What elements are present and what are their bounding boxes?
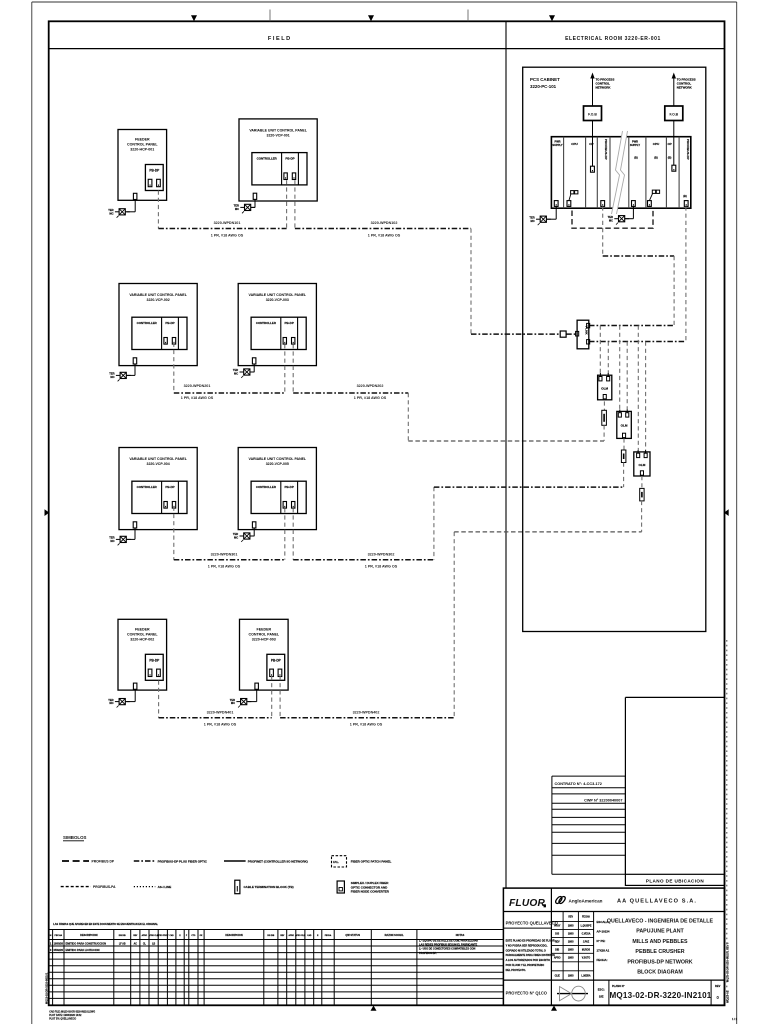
svg-text:3220-WPDN201: 3220-WPDN201 (184, 384, 211, 388)
terminator P7-TR (108, 698, 130, 708)
svg-text:AC: AC (134, 943, 138, 946)
CPU-B diagnostic ports (649, 190, 659, 201)
svg-text:1 PR, #18 AWG OS: 1 PR, #18 AWG OS (208, 565, 241, 569)
svg-text:C.VEGA: C.VEGA (582, 933, 591, 936)
svg-text:PLANO DE UBICACION: PLANO DE UBICACION (646, 878, 705, 883)
Y-link coupler U1 (576, 320, 590, 349)
match arrows bottom (371, 1006, 558, 1011)
svg-text:PROFIBUS-DP.: PROFIBUS-DP. (419, 952, 437, 955)
svg-text:PLANO N°: PLANO N° (612, 984, 625, 988)
legend item controller network (224, 860, 308, 864)
svg-text:3220-WPDN202: 3220-WPDN202 (357, 384, 384, 388)
svg-text:19/03: 19/03 (568, 934, 574, 936)
svg-text:TER: TER (230, 698, 235, 702)
bus W4 labels (204, 711, 383, 727)
svg-text:V.SOTO: V.SOTO (582, 958, 591, 960)
svg-text:CABLE TERMINATION BLOCK (TB): CABLE TERMINATION BLOCK (TB) (244, 885, 294, 889)
wire line A drop to R3 (637, 326, 639, 451)
svg-text:M.RIOS: M.RIOS (582, 949, 591, 951)
terminator P6-TR (233, 532, 255, 542)
svg-text:1 PR, #18 AWG OS: 1 PR, #18 AWG OS (365, 565, 398, 569)
match arrow left border (45, 509, 50, 516)
svg-text:CONTROLLER: CONTROLLER (137, 321, 158, 325)
bus W2 PROFIBUS segment row2 (174, 392, 408, 394)
svg-text:3220-WPDN302: 3220-WPDN302 (368, 552, 395, 556)
svg-text:COPIADO NI UTILIZADO TOTAL O: COPIADO NI UTILIZADO TOTAL O (506, 949, 546, 952)
svg-text:(B): (B) (654, 156, 658, 160)
svg-text:FLUOR: FLUOR (509, 898, 546, 909)
svg-text:19/03: 19/03 (568, 926, 574, 928)
svg-text:QUELLAVECO - INGENIERIA DE DET: QUELLAVECO - INGENIERIA DE DETALLE (607, 919, 714, 925)
svg-text:LB: LB (152, 944, 155, 946)
wire F2 to bus W3 (623, 463, 625, 488)
bus W2 riser down (407, 393, 409, 441)
legend item fiber patch panel (332, 856, 392, 867)
slot CPU B (653, 142, 660, 159)
panel P5 (119, 448, 197, 540)
svg-text:PB-DP: PB-DP (149, 658, 160, 662)
location plan label bar (625, 874, 724, 885)
disclaimer paragraph (506, 940, 556, 972)
inline connector J1 (560, 331, 566, 337)
terminator P4-TR (233, 368, 255, 378)
terminator TR-B (608, 215, 630, 225)
CPU-A diagnostic ports (569, 191, 578, 201)
svg-text:CONTROL PANEL: CONTROL PANEL (248, 633, 279, 637)
svg-text:PROYECTO N° Q1CO: PROYECTO N° Q1CO (506, 991, 548, 996)
svg-text:(B): (B) (668, 156, 672, 160)
panel P8 (240, 619, 289, 701)
svg-text:VARIABLE UNIT CONTROL PANEL: VARIABLE UNIT CONTROL PANEL (249, 128, 307, 132)
AngloAmerican logo (556, 897, 603, 904)
svg-text:3220-HCP-002: 3220-HCP-002 (130, 638, 154, 642)
panel P3 (119, 284, 197, 376)
svg-text:AS-I LINE: AS-I LINE (158, 885, 172, 889)
svg-text:CONTROLLER: CONTROLLER (137, 485, 158, 489)
svg-text:PROFIBUS DP: PROFIBUS DP (92, 860, 115, 864)
svg-text:APRO: APRO (288, 934, 294, 937)
svg-text:DIB: DIB (555, 949, 559, 951)
rack port CP-B mid (672, 165, 676, 171)
svg-text:1 PR, #18 AWG OS: 1 PR, #18 AWG OS (181, 396, 214, 400)
wire P3 drop to bus W2 (173, 343, 175, 393)
svg-text:CAD: CAD (307, 934, 312, 937)
svg-text:PB-DP: PB-DP (271, 658, 282, 662)
svg-text:3220-VCP-002: 3220-VCP-002 (147, 298, 170, 302)
svg-text:CONTROLLER: CONTROLLER (257, 156, 278, 160)
terminator TR-A (529, 215, 551, 225)
legend item profibus pa (61, 885, 116, 889)
bus W2 run to repeater R1 (408, 440, 604, 442)
FIELD / ELECTRICAL ROOM divider (505, 21, 507, 888)
svg-text:1 PR, #18 AWG OS: 1 PR, #18 AWG OS (211, 233, 244, 237)
profibus line A from DP-A (589, 206, 674, 325)
svg-text:OLM: OLM (601, 386, 608, 390)
plot info under table (49, 1010, 95, 1020)
svg-text:3220-VCP-005: 3220-VCP-005 (266, 462, 289, 466)
terminator P1-TR (108, 208, 130, 218)
attribute labels (597, 920, 610, 962)
PCS cabinet 3220-PC-101 (523, 67, 706, 631)
svg-text:LAS REDES PROFIBUS SEGUN EL FA: LAS REDES PROFIBUS SEGUN EL FABRICANTE (419, 944, 477, 947)
wire R1 to fuse F1 (603, 401, 605, 410)
svg-text:19/03: 19/03 (568, 958, 574, 960)
svg-text:CP: CP (667, 142, 671, 146)
svg-text:3220-VCP-004: 3220-VCP-004 (147, 462, 170, 466)
notes column text (419, 940, 478, 955)
svg-text:PROFIBUS-DP PLUS FIBER OPTIC: PROFIBUS-DP PLUS FIBER OPTIC (158, 860, 208, 864)
location plan box (625, 697, 724, 874)
wire PWR-A port to terminator TR-A (546, 206, 556, 219)
svg-text:Y NO PODRA SER REPRODUCIDO,: Y NO PODRA SER REPRODUCIDO, (506, 944, 548, 947)
fiber optic converter FO1 (584, 106, 602, 121)
wire P8 drops to bus W4 (272, 676, 280, 718)
panel P7 (118, 619, 167, 701)
bus W3 run to repeater R2 (434, 486, 624, 488)
svg-text:DIS: DIS (555, 934, 559, 936)
svg-text:TER: TER (108, 698, 113, 702)
svg-text:19/03: 19/03 (568, 976, 574, 978)
svg-text:PLOT BY: QUELLAVECO: PLOT BY: QUELLAVECO (49, 1017, 76, 1020)
svg-text:MC: MC (531, 219, 535, 223)
panel P1 (118, 130, 167, 212)
svg-text:MC: MC (110, 539, 114, 543)
FLUOR dot (544, 905, 546, 908)
svg-text:F.O.B: F.O.B (588, 113, 597, 117)
svg-text:F I E L D: F I E L D (268, 36, 290, 42)
legend item profibus dp fiber (134, 860, 208, 864)
svg-text:MC: MC (231, 701, 235, 705)
wire R2 to fuse F2 (623, 438, 625, 450)
svg-text:L.QUISPE: L.QUISPE (581, 926, 592, 928)
svg-text:3220-HCP-003: 3220-HCP-003 (252, 638, 276, 642)
header band line (49, 48, 725, 50)
svg-text:FIBER NODE CONVERTER: FIBER NODE CONVERTER (351, 890, 390, 894)
controller rack (551, 137, 690, 209)
svg-text:REV: REV (568, 917, 573, 919)
svg-text:AA QUELLAVECO S.A.: AA QUELLAVECO S.A. (617, 898, 697, 904)
repeater R2 (617, 410, 632, 439)
svg-text:F.O.B: F.O.B (669, 113, 678, 117)
bus W4 PROFIBUS segment row4 (159, 717, 455, 719)
svg-text:PWR: PWR (632, 139, 638, 143)
svg-text:FECHA: FECHA (582, 916, 590, 919)
svg-text:FEEDER: FEEDER (135, 138, 150, 142)
wire P7 drop to bus W4 (158, 681, 160, 718)
svg-text:APRO: APRO (142, 934, 148, 937)
svg-text:MQ13-02-DR-3220-IN2101 REV 0: MQ13-02-DR-3220-IN2101 REV 0 (726, 942, 730, 982)
svg-text:I.P.L.: I.P.L. (333, 860, 339, 864)
svg-text:SUPPLY: SUPPLY (552, 143, 562, 147)
title block frame (503, 888, 724, 1005)
svg-text:MC: MC (110, 375, 114, 379)
terminator P3-TR (109, 372, 131, 382)
wire FO2 down to CP-B port (673, 121, 675, 166)
bus W1 riser to electrical room (470, 229, 472, 335)
svg-text:3220-WPDN102: 3220-WPDN102 (371, 221, 398, 225)
svg-text:QW STATUS: QW STATUS (345, 934, 360, 937)
svg-text:NETWORK: NETWORK (677, 86, 693, 90)
wire P5 drop to bus W3 (173, 507, 175, 560)
wire PWR-B port to terminator TR-B (625, 206, 634, 218)
projection symbol (557, 986, 588, 1001)
wire line A drop to R2 (619, 326, 621, 410)
svg-text:3220-WPDN401: 3220-WPDN401 (207, 711, 234, 715)
svg-text:PB-DP: PB-DP (285, 321, 294, 325)
svg-text:SIMBOLOS: SIMBOLOS (63, 835, 86, 840)
repeater R3 (634, 450, 650, 476)
svg-text:3220-VCP-001: 3220-VCP-001 (267, 134, 290, 138)
svg-text:PAPUJUNE PLANT: PAPUJUNE PLANT (636, 929, 684, 935)
wire line B drop to R2 (626, 342, 628, 410)
legend item as-i line (134, 885, 171, 889)
svg-text:ESTE PLANO ES PROPIEDAD DE FLU: ESTE PLANO ES PROPIEDAD DE FLUOR (506, 940, 555, 943)
svg-text:CWP N° 32200040007: CWP N° 32200040007 (584, 799, 622, 803)
bus W3 riser up (433, 487, 435, 560)
svg-text:MQ13-02-DR-3220-IN2101: MQ13-02-DR-3220-IN2101 (609, 991, 711, 1000)
wire F1 to bus W2 (603, 425, 605, 441)
right margin perforation dots (726, 640, 728, 1003)
revision table (49, 930, 504, 1006)
rack port CPU-A (567, 201, 571, 207)
slot PWR SUPPLY B (630, 139, 640, 159)
svg-text:TER: TER (109, 536, 114, 540)
svg-text:A LOS AUTORIZADOS POR ESCRITO: A LOS AUTORIZADOS POR ESCRITO (506, 959, 550, 962)
panel P2 (239, 119, 317, 207)
cabinet label (530, 77, 560, 89)
signature table (551, 912, 593, 981)
svg-text:TER: TER (108, 208, 113, 212)
svg-text:VARIABLE UNIT CONTROL PANEL: VARIABLE UNIT CONTROL PANEL (129, 457, 187, 461)
svg-text:PROY: PROY (554, 926, 561, 928)
svg-text:1 PR, #18 AWG OS: 1 PR, #18 AWG OS (350, 723, 383, 727)
svg-text:MC: MC (109, 701, 113, 705)
label to process control network 1 (596, 78, 615, 90)
legend item fiber connector (337, 881, 390, 894)
surge barrier F1 (602, 410, 607, 425)
terminator P8-TR (230, 698, 252, 708)
svg-text:17X28 A1: 17X28 A1 (597, 949, 610, 953)
fold marks top (270, 10, 468, 22)
bus W1 run to Y-link (471, 333, 577, 335)
svg-text:19/03: 19/03 (568, 949, 574, 951)
right margin filing text (725, 942, 729, 1003)
svg-text:CONTROLLER: CONTROLLER (256, 321, 277, 325)
match arrows top (191, 15, 555, 21)
svg-text:DIS DIB: DIS DIB (267, 935, 275, 937)
svg-text:19/03: 19/03 (568, 942, 574, 944)
bus W3 labels (208, 552, 398, 568)
svg-text:CTO: CTO (191, 935, 195, 937)
svg-text:DIS DIB: DIS DIB (119, 935, 127, 937)
svg-text:APRO CLIE: APRO CLIE (295, 934, 306, 937)
svg-text:1 PR, #18 AWG OS: 1 PR, #18 AWG OS (368, 233, 401, 237)
scale cell (598, 980, 609, 1005)
svg-text:MC: MC (235, 207, 239, 211)
wire line A drop to R1 (599, 326, 601, 374)
legend title SIMBOLOS (63, 835, 86, 841)
svg-text:J.PAZ: J.PAZ (583, 941, 590, 944)
svg-text:OLM: OLM (621, 423, 628, 427)
bus W2 labels (181, 384, 387, 400)
label to process control network 2 (677, 78, 696, 90)
svg-text:LF AB: LF AB (119, 943, 126, 946)
svg-text:(B): (B) (683, 194, 687, 198)
svg-text:TER: TER (529, 215, 534, 219)
svg-text:VARIABLE UNIT CONTROL PANEL: VARIABLE UNIT CONTROL PANEL (249, 293, 307, 297)
profibus line B from DP-B (589, 206, 686, 341)
bus W3 PROFIBUS segment row3 (174, 559, 434, 561)
svg-text:CAD FILE: MQ13-02-DR-3220-IN21: CAD FILE: MQ13-02-DR-3220-IN2101.DWG (49, 1010, 95, 1013)
redundancy sync bus under rack (572, 211, 653, 229)
revision table headers (50, 934, 465, 937)
fiber optic converter FO2 (665, 106, 683, 121)
surge barrier F2 (621, 450, 626, 463)
svg-text:19/03/20: 19/03/20 (54, 943, 64, 946)
bus W4 riser up (453, 532, 455, 718)
svg-text:3220-VCP-003: 3220-VCP-003 (266, 298, 289, 302)
svg-text:FECHA:: FECHA: (597, 958, 608, 962)
svg-text:PEBBLE CRUSHER: PEBBLE CRUSHER (635, 949, 684, 955)
svg-text:CONTRATO N°: 4-CC3-172: CONTRATO N°: 4-CC3-172 (555, 782, 602, 786)
rack slot dividers (564, 137, 680, 209)
legend item profibus dp (62, 860, 115, 864)
bus W4 run to repeater R3 (454, 531, 641, 533)
svg-text:PROFIBUS-PA: PROFIBUS-PA (93, 885, 116, 889)
svg-text:ELECTRICAL ROOM 3220-ER-001: ELECTRICAL ROOM 3220-ER-001 (565, 36, 661, 42)
bus W1 labels (211, 221, 401, 237)
svg-text:PCS CABINET: PCS CABINET (530, 77, 560, 82)
svg-text:PROYECTO QUELLAVECO: PROYECTO QUELLAVECO (506, 920, 559, 925)
repeater R1 (598, 373, 612, 400)
svg-text:MC: MC (234, 536, 238, 540)
svg-text:PB-DP: PB-DP (285, 485, 294, 489)
svg-text:(B): (B) (634, 156, 638, 160)
svg-text:CAD: CAD (170, 934, 175, 937)
slot CP B (667, 142, 671, 159)
svg-text:DESCRIPCION: DESCRIPCION (225, 934, 243, 937)
svg-text:TER: TER (234, 204, 239, 208)
svg-text:PB-DP: PB-DP (165, 485, 174, 489)
wire P2 drops to bus W1 (287, 180, 295, 228)
svg-text:EMITIDO PARA CONSTRUCCION: EMITIDO PARA CONSTRUCCION (66, 942, 107, 946)
svg-text:PROFINET (CONTROLLER I/O NETWO: PROFINET (CONTROLLER I/O NETWORK) (248, 860, 308, 864)
svg-text:AP-10134: AP-10134 (597, 930, 610, 934)
svg-text:PWR: PWR (554, 139, 560, 143)
rack port DP-B (684, 201, 688, 207)
svg-text:CONTROL PANEL: CONTROL PANEL (127, 143, 158, 147)
svg-text:CPU: CPU (653, 142, 660, 146)
svg-text:CP: CP (589, 142, 593, 146)
svg-text:MQ13-02-DR-3220-IN2101: MQ13-02-DR-3220-IN2101 (45, 972, 49, 1004)
svg-text:1 PR, #18 AWG OS: 1 PR, #18 AWG OS (204, 723, 237, 727)
bus W1 PROFIBUS segment row1 (158, 228, 471, 230)
svg-text:BLOCK DIAGRAM: BLOCK DIAGRAM (637, 970, 683, 976)
svg-text:PARCIALMENTE PARA FINES DISTIN: PARCIALMENTE PARA FINES DISTINTOS (506, 954, 556, 957)
wire line B drop to R3 (645, 342, 647, 451)
svg-text:LAS FIRMAS QUE APARECEN EN EST: LAS FIRMAS QUE APARECEN EN ESTE DOCUMENT… (53, 923, 158, 926)
legend item bus connector (235, 880, 294, 894)
svg-text:MC: MC (234, 372, 238, 376)
surge barrier F3 (640, 488, 644, 501)
contract table (552, 776, 626, 874)
revision cell (711, 980, 721, 1005)
svg-text:MC: MC (609, 218, 613, 222)
svg-text:CLIE: CLIE (555, 976, 561, 978)
terminator P2-TR (234, 204, 256, 214)
wire R3 to fuse F3 (641, 476, 643, 488)
svg-text:TER: TER (608, 215, 613, 219)
panel P6 (238, 448, 316, 537)
panel P4 (238, 284, 316, 373)
rack port CP-A mid (591, 166, 595, 172)
svg-text:APRO: APRO (554, 957, 561, 960)
rack break mark (612, 131, 628, 214)
svg-text:FIBER OPTIC PATCH PANEL: FIBER OPTIC PATCH PANEL (351, 860, 392, 864)
svg-text:N° PE:: N° PE: (597, 939, 606, 943)
svg-text:05/02/20: 05/02/20 (54, 949, 64, 952)
svg-text:3220-PC-101: 3220-PC-101 (530, 84, 557, 89)
svg-text:1 / 1: 1 / 1 (732, 1017, 738, 1021)
svg-text:PROFIBUS-DP: PROFIBUS-DP (686, 139, 690, 160)
svg-text:REV: REV (715, 984, 721, 988)
match arrow right border (724, 509, 729, 516)
wire FO1 down to CP port (592, 121, 594, 167)
svg-text:1 PR, #18 AWG OS: 1 PR, #18 AWG OS (354, 396, 387, 400)
svg-text:MQ13-02: MQ13-02 (725, 990, 729, 1003)
svg-text:REV: REV (555, 942, 560, 944)
svg-text:ESC:: ESC: (598, 988, 605, 992)
svg-text:S/E: S/E (599, 995, 604, 999)
svg-text:MILLS AND PEBBLES: MILLS AND PEBBLES (632, 939, 688, 945)
svg-text:3220-WPDN301: 3220-WPDN301 (211, 552, 238, 556)
rack port CPU-B (648, 201, 652, 207)
svg-text:TER: TER (233, 532, 238, 536)
rack port PWR-B (632, 201, 636, 207)
svg-text:DEL PROYECTO.: DEL PROYECTO. (506, 969, 527, 972)
rack port PWR-A (554, 201, 558, 207)
svg-text:3220-HCP-001: 3220-HCP-001 (130, 148, 154, 152)
svg-text:TER: TER (233, 368, 238, 372)
svg-text:3220-WPDN402: 3220-WPDN402 (353, 711, 380, 715)
svg-text:AngloAmerican: AngloAmerican (569, 899, 603, 904)
revision row 0 (50, 948, 100, 952)
wire P6 drops to bus W3 (285, 508, 293, 560)
svg-text:FEEDER: FEEDER (135, 628, 150, 632)
rack port DP-A (601, 201, 605, 207)
svg-text:TER: TER (109, 372, 114, 376)
slot PWR SUPPLY A (552, 139, 562, 147)
wire line B drop to R1 (607, 342, 609, 374)
wire P4 drops to bus W2 (285, 344, 293, 393)
svg-text:CONTROLLER: CONTROLLER (256, 485, 277, 489)
svg-text:PLOT DATE: 19/03/2020 10:42: PLOT DATE: 19/03/2020 10:42 (49, 1014, 82, 1017)
svg-text:POR FLUOR Y EL PROPIETARIO: POR FLUOR Y EL PROPIETARIO (506, 964, 545, 967)
svg-text:L.NEIRA: L.NEIRA (581, 975, 591, 978)
svg-text:PB-DP: PB-DP (285, 156, 294, 160)
svg-text:FEEDER: FEEDER (257, 628, 272, 632)
svg-text:MC: MC (109, 211, 113, 215)
svg-text:PROFIBUS-DP NETWORK: PROFIBUS-DP NETWORK (627, 959, 692, 965)
svg-text:PB-DP: PB-DP (149, 169, 160, 173)
slot PROFIBUS-DP module B (vertical label) (683, 139, 690, 198)
svg-text:SUPPLY: SUPPLY (630, 143, 640, 147)
svg-text:VARIABLE UNIT CONTROL PANEL: VARIABLE UNIT CONTROL PANEL (129, 293, 187, 297)
svg-text:EMITIDO PARA LICITACION: EMITIDO PARA LICITACION (66, 948, 100, 952)
wire FO2 up with arrow to PCN (672, 73, 676, 107)
wire FO1 up with arrow to PCN (590, 73, 594, 107)
svg-text:CPU: CPU (571, 142, 578, 146)
